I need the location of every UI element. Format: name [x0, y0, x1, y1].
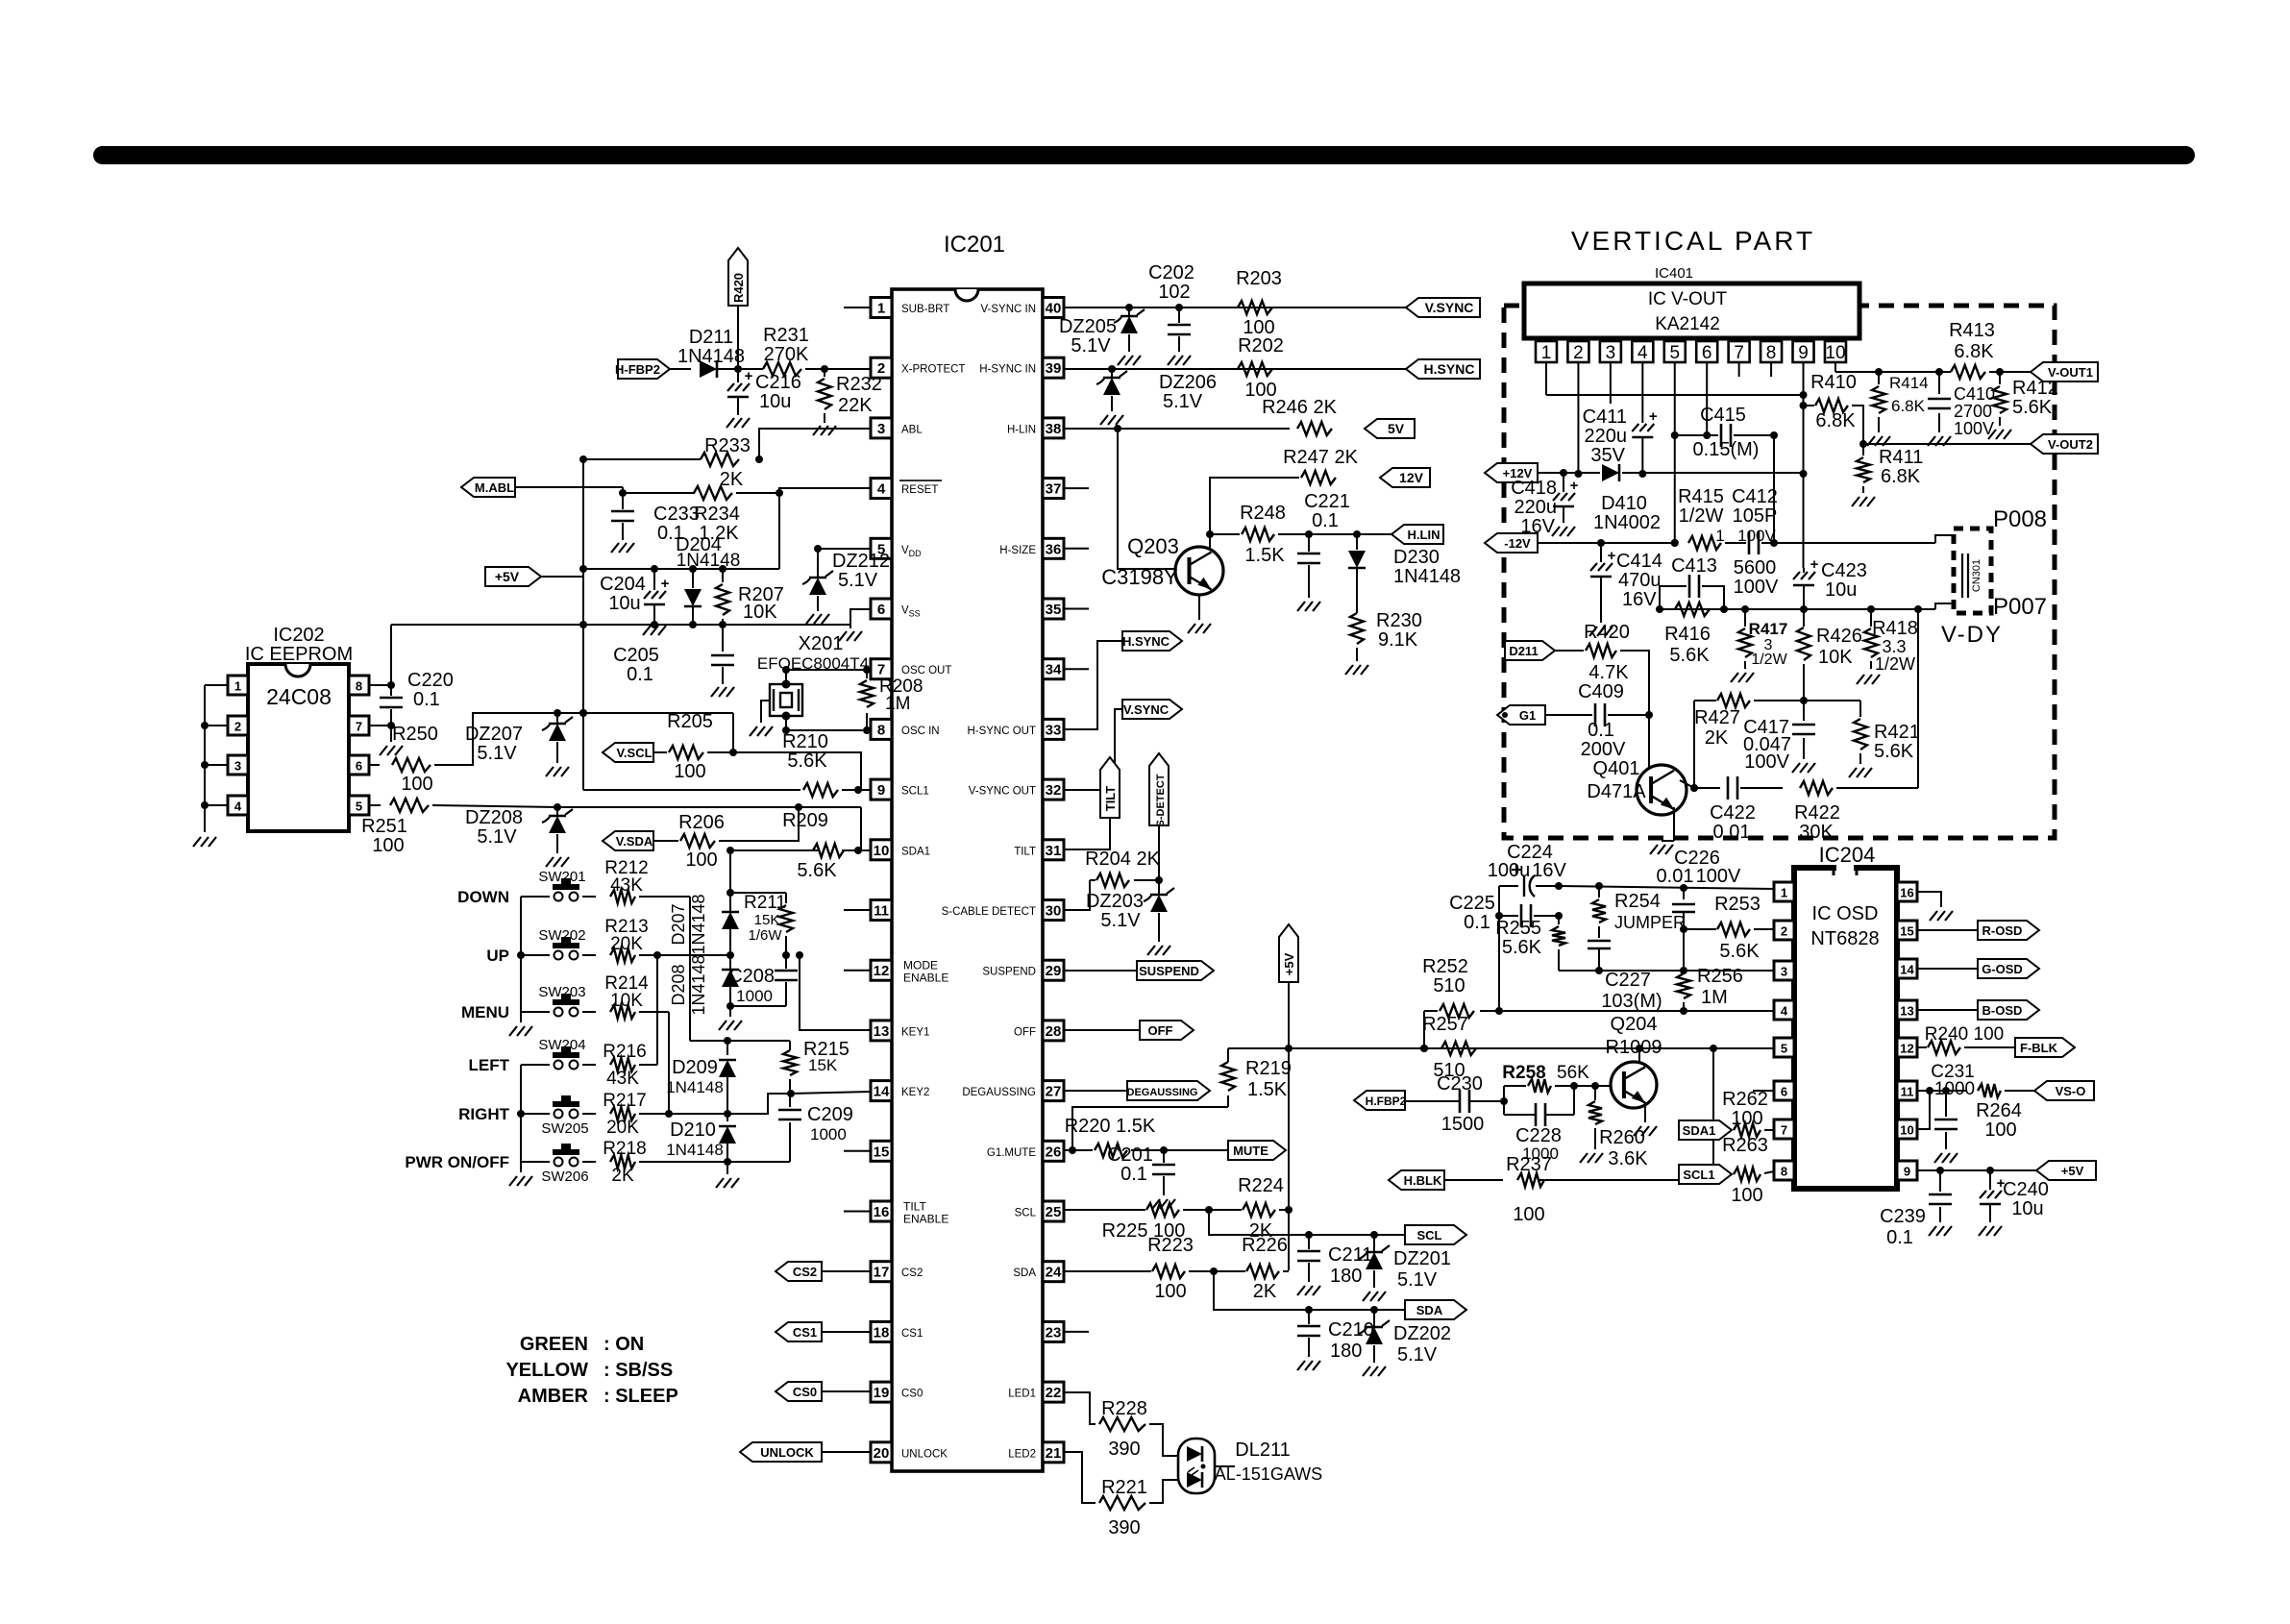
- svg-text:1.5K: 1.5K: [1247, 1079, 1288, 1100]
- svg-text:R248: R248: [1240, 503, 1286, 524]
- svg-text:24C08: 24C08: [266, 684, 332, 709]
- wire: [1773, 435, 1775, 543]
- ground: [1731, 673, 1738, 682]
- svg-text:H-SYNC IN: H-SYNC IN: [979, 364, 1036, 376]
- wire rail: [583, 568, 779, 570]
- resistor R256: [1683, 929, 1685, 971]
- svg-text:10K: 10K: [610, 991, 643, 1011]
- svg-text:100: 100: [685, 849, 717, 871]
- flag 5V: [1365, 419, 1415, 438]
- diode D209: [726, 1041, 728, 1055]
- ground: [1849, 768, 1857, 777]
- wire pin39: [1064, 368, 1406, 370]
- svg-text:15: 15: [1900, 924, 1913, 939]
- resistor R202: [1238, 362, 1272, 376]
- ground: [546, 857, 554, 867]
- svg-text:26: 26: [1046, 1144, 1062, 1160]
- wire: [432, 805, 557, 807]
- wire sw bus1: [520, 897, 522, 1012]
- resistor R420: [1586, 644, 1616, 657]
- svg-text:R202: R202: [1238, 335, 1284, 357]
- wire: [1283, 1270, 1289, 1272]
- flag +5V: [485, 567, 541, 586]
- svg-text:20K: 20K: [610, 934, 643, 954]
- svg-text:5.6K: 5.6K: [1502, 937, 1542, 958]
- svg-text:H.FBP2: H.FBP2: [1366, 1095, 1407, 1108]
- wire stub: [1064, 608, 1089, 610]
- svg-text:R415: R415: [1678, 486, 1724, 507]
- svg-text:1: 1: [1541, 343, 1552, 363]
- svg-text:DZ212: DZ212: [832, 551, 890, 572]
- IC201 pin 4: [871, 479, 892, 499]
- svg-text:100: 100: [1984, 1120, 2016, 1141]
- wire: [1770, 362, 1772, 377]
- ground: [1100, 415, 1108, 425]
- svg-text:IC204: IC204: [1819, 843, 1876, 867]
- wire: [1834, 362, 1836, 372]
- svg-text:IC401: IC401: [1655, 265, 1693, 282]
- diode D230: [1356, 534, 1358, 550]
- svg-text:100: 100: [1731, 1185, 1762, 1206]
- svg-text:DZ207: DZ207: [465, 724, 523, 745]
- IC201 pin 10: [871, 840, 892, 860]
- svg-text:3: 3: [234, 759, 241, 774]
- svg-text:25: 25: [1046, 1204, 1062, 1220]
- switch SW205: [521, 1113, 550, 1115]
- svg-text:32: 32: [1046, 782, 1062, 799]
- svg-text:CS0: CS0: [901, 1389, 923, 1400]
- wire pin6: [369, 764, 380, 766]
- ground: [839, 631, 847, 641]
- svg-text:1/6W: 1/6W: [748, 927, 782, 944]
- svg-text:3.3: 3.3: [1882, 637, 1906, 656]
- ground: [611, 543, 619, 553]
- IC201 pin 23: [1043, 1321, 1064, 1341]
- resistor R414: [1878, 372, 1880, 384]
- ground: [806, 614, 814, 624]
- svg-text:R223: R223: [1147, 1235, 1194, 1256]
- resistor R213: [610, 948, 635, 962]
- resistor R262: [1734, 1123, 1761, 1137]
- svg-text:D471A: D471A: [1587, 781, 1646, 802]
- svg-text:1000: 1000: [1934, 1079, 1975, 1099]
- svg-text:V-SYNC IN: V-SYNC IN: [980, 304, 1036, 315]
- switch SW203: [521, 1011, 550, 1013]
- svg-text:21: 21: [1046, 1445, 1062, 1462]
- resistor R246: [1297, 422, 1332, 435]
- svg-text:-12V: -12V: [1504, 536, 1531, 551]
- wire: [583, 458, 701, 460]
- svg-text:C423: C423: [1821, 560, 1867, 581]
- wire: [1989, 371, 2031, 373]
- ground: [1168, 356, 1175, 365]
- svg-text:1N4002: 1N4002: [1593, 512, 1661, 533]
- svg-text:DZ201: DZ201: [1393, 1248, 1451, 1269]
- resistor R228: [1099, 1417, 1145, 1431]
- svg-text:OFF: OFF: [1148, 1023, 1173, 1038]
- svg-text:R204 2K: R204 2K: [1085, 849, 1160, 870]
- svg-text:10: 10: [1825, 343, 1845, 363]
- svg-text:5.6K: 5.6K: [787, 750, 827, 772]
- svg-text:35V: 35V: [1590, 445, 1625, 466]
- ground: [509, 1176, 517, 1186]
- capacitor C414: [1600, 543, 1602, 562]
- svg-text:R421: R421: [1874, 722, 1920, 743]
- wire: [670, 368, 691, 370]
- wire: [1423, 1011, 1425, 1048]
- wire: [761, 701, 770, 723]
- svg-text:SW202: SW202: [538, 927, 585, 944]
- flag TILT: [1100, 757, 1120, 818]
- wire pin21 LED2: [1064, 1452, 1096, 1503]
- wire V-OUT2: [1863, 443, 2031, 445]
- svg-text:IC V-OUT: IC V-OUT: [1648, 289, 1728, 309]
- svg-text:CS2: CS2: [901, 1267, 923, 1279]
- IC201 pin 19: [871, 1382, 892, 1402]
- IC202 pin 8: [349, 676, 369, 695]
- svg-text:1000: 1000: [810, 1125, 847, 1144]
- diode D211: [700, 360, 717, 378]
- wire pin8: [369, 684, 391, 686]
- capacitor C209: [789, 1094, 791, 1107]
- svg-text:R211: R211: [744, 893, 786, 913]
- svg-text:R220 1.5K: R220 1.5K: [1065, 1116, 1156, 1137]
- svg-text:C422: C422: [1710, 802, 1756, 824]
- svg-text:28: 28: [1046, 1023, 1062, 1040]
- svg-text:R233: R233: [704, 435, 751, 456]
- svg-text:R221: R221: [1101, 1477, 1147, 1498]
- svg-text:0.1: 0.1: [627, 664, 653, 685]
- resistor R240: [1928, 1041, 1960, 1054]
- flag H.BLK: [1389, 1170, 1444, 1190]
- switch SW204: [521, 1064, 550, 1066]
- svg-text:S-DETECT: S-DETECT: [1155, 774, 1167, 826]
- wire pin40: [1064, 307, 1406, 308]
- capacitor C216: [737, 369, 739, 382]
- resistor R247: [1301, 471, 1336, 484]
- IC201 pin 3: [871, 418, 892, 438]
- vertical part dashed box: [1504, 306, 2055, 838]
- svg-text:SUSPEND: SUSPEND: [982, 967, 1036, 978]
- svg-text:V-DY: V-DY: [1941, 622, 2003, 648]
- resistor R205: [669, 746, 703, 759]
- svg-text:C225: C225: [1449, 893, 1495, 914]
- svg-text:1500: 1500: [1441, 1114, 1485, 1135]
- IC201 pin 30: [1043, 900, 1064, 921]
- wire: [1764, 1129, 1774, 1131]
- svg-text:IC EEPROM: IC EEPROM: [245, 644, 353, 665]
- wire: [717, 368, 763, 370]
- ground: [750, 726, 757, 736]
- svg-text:103(M): 103(M): [1601, 991, 1662, 1012]
- zener DZ207: [556, 713, 558, 723]
- diode D410: [1602, 464, 1619, 481]
- svg-text:P008: P008: [1993, 506, 2047, 532]
- IC201 pin 25: [1043, 1201, 1064, 1221]
- zener DZ212: [817, 549, 819, 577]
- svg-text:23: 23: [1046, 1324, 1062, 1341]
- wire: [1288, 982, 1290, 1048]
- svg-text:390: 390: [1108, 1439, 1140, 1460]
- resistor R219: [1227, 1095, 1229, 1107]
- svg-text:6: 6: [877, 602, 885, 618]
- svg-text:C413: C413: [1671, 555, 1717, 577]
- svg-text:D207: D207: [669, 903, 688, 945]
- svg-text:R206: R206: [678, 812, 725, 833]
- wire stub: [1064, 487, 1089, 489]
- svg-text:8: 8: [1781, 1165, 1787, 1179]
- IC201 pin 39: [1043, 357, 1064, 378]
- svg-text:5V: 5V: [1388, 421, 1405, 436]
- svg-text:C210: C210: [1328, 1319, 1374, 1341]
- wire: [623, 492, 695, 494]
- svg-text:30K: 30K: [1799, 822, 1834, 843]
- svg-text:R247 2K: R247 2K: [1283, 447, 1358, 468]
- IC204 pin 13: [1897, 1000, 1917, 1020]
- svg-text:390: 390: [1108, 1517, 1140, 1538]
- svg-text:D410: D410: [1601, 493, 1647, 514]
- ground: [1297, 602, 1305, 611]
- flag CS2: [776, 1262, 822, 1281]
- flag SDA: [1405, 1300, 1466, 1319]
- svg-text:0.1: 0.1: [1464, 912, 1490, 933]
- svg-text:R255: R255: [1495, 918, 1541, 939]
- resistor R263: [1734, 1168, 1761, 1181]
- svg-text:6: 6: [1702, 343, 1712, 363]
- ground: [1857, 675, 1864, 684]
- IC204 pin 2: [1774, 921, 1794, 940]
- flag UNLOCK: [740, 1442, 822, 1462]
- svg-text:R217: R217: [603, 1091, 646, 1111]
- svg-text:510: 510: [1433, 975, 1465, 997]
- wire pin4: [779, 488, 871, 569]
- svg-text:2K: 2K: [611, 1166, 634, 1186]
- capacitor C423: [1803, 568, 1805, 573]
- svg-text:DZ208: DZ208: [465, 807, 523, 828]
- svg-text:1N4148: 1N4148: [666, 1141, 724, 1159]
- wire: [1183, 1209, 1242, 1211]
- svg-text:3.6K: 3.6K: [1608, 1148, 1648, 1169]
- svg-text:C227: C227: [1605, 970, 1651, 991]
- svg-text:R256: R256: [1697, 966, 1743, 987]
- svg-text:IC201: IC201: [944, 232, 1005, 258]
- svg-text:C240: C240: [2003, 1179, 2049, 1200]
- svg-text:SCL: SCL: [1417, 1228, 1442, 1243]
- svg-text:5.1V: 5.1V: [477, 826, 517, 848]
- svg-text:R262: R262: [1722, 1089, 1768, 1110]
- svg-text:C209: C209: [807, 1104, 853, 1125]
- capacitor C220: [390, 685, 392, 696]
- svg-text:SCL1: SCL1: [1683, 1168, 1714, 1182]
- wire pin29: [1064, 970, 1137, 972]
- svg-text:AL-151GAWS: AL-151GAWS: [1215, 1464, 1322, 1484]
- svg-text:1/2W: 1/2W: [1679, 505, 1724, 527]
- capacitor C233: [622, 493, 624, 509]
- top title bar: [93, 146, 2195, 164]
- svg-text:10u: 10u: [759, 391, 791, 412]
- IC201 pin 33: [1043, 719, 1064, 739]
- IC201 pin 8: [871, 719, 892, 739]
- IC201 pin 5: [871, 538, 892, 558]
- svg-text:V-OUT2: V-OUT2: [2048, 437, 2093, 452]
- IC201 pin 22: [1043, 1382, 1064, 1402]
- wire: [656, 955, 658, 1065]
- svg-text:C412: C412: [1732, 486, 1778, 507]
- svg-text:S-CABLE DETECT: S-CABLE DETECT: [942, 906, 1036, 918]
- svg-text:R203: R203: [1236, 268, 1282, 289]
- flag SUSPEND: [1137, 961, 1214, 980]
- svg-text:5: 5: [1781, 1042, 1787, 1056]
- svg-text:D211: D211: [1509, 644, 1538, 658]
- svg-text:V.SDA: V.SDA: [616, 834, 653, 849]
- svg-text:V-SYNC OUT: V-SYNC OUT: [969, 786, 1036, 798]
- wire: [727, 1161, 790, 1163]
- capacitor C422: [1727, 776, 1730, 800]
- flag F-BLK: [2015, 1038, 2075, 1057]
- wire pin9: [1917, 1169, 2036, 1171]
- capacitor C204: [653, 569, 655, 590]
- transistor Q401: [1637, 765, 1687, 815]
- wire: [390, 625, 392, 685]
- capacitor C208: [785, 955, 787, 969]
- wire: [1214, 1271, 1405, 1310]
- svg-text:4: 4: [877, 481, 886, 498]
- svg-text:0.01: 0.01: [1657, 866, 1694, 887]
- ground: [1188, 624, 1195, 633]
- IC401 pin 8: [1761, 341, 1782, 362]
- zener DZ201: [1373, 1235, 1375, 1251]
- IC201 body: [892, 289, 1043, 1471]
- svg-text:100V: 100V: [1744, 751, 1789, 773]
- wire rail: [1546, 394, 1804, 396]
- flag V.SDA: [603, 831, 653, 850]
- resistor R412: [1999, 372, 2001, 384]
- IC201 pin 38: [1043, 418, 1064, 438]
- svg-text:R414: R414: [1889, 374, 1929, 392]
- svg-text:43K: 43K: [606, 1069, 639, 1089]
- svg-text:10u: 10u: [2011, 1198, 2043, 1219]
- resistor R255: [1558, 916, 1560, 924]
- capacitor C411: [1632, 424, 1654, 431]
- IC202 pin 2: [228, 716, 248, 735]
- svg-text:1M: 1M: [1701, 987, 1728, 1008]
- wire pin30: [1064, 880, 1090, 910]
- svg-text:YELLOW: YELLOW: [505, 1360, 588, 1381]
- resistor R234: [694, 486, 732, 500]
- flag V.SYNC out: [1122, 700, 1182, 719]
- wire: [639, 1011, 669, 1013]
- svg-text:LEFT: LEFT: [469, 1056, 510, 1074]
- svg-text:UP: UP: [486, 947, 509, 965]
- svg-text:2K: 2K: [720, 469, 744, 490]
- svg-text:D211: D211: [689, 327, 733, 348]
- resistor R220: [1072, 1149, 1093, 1151]
- connector CN301 P008/P007: [1954, 529, 1991, 613]
- svg-text:X201: X201: [799, 633, 844, 654]
- svg-text:100: 100: [1154, 1281, 1186, 1302]
- IC204 pin 5: [1774, 1038, 1794, 1057]
- svg-text:12V: 12V: [1399, 470, 1424, 485]
- resistor R207: [722, 569, 724, 582]
- svg-text:1: 1: [234, 679, 241, 694]
- svg-text:G1.MUTE: G1.MUTE: [987, 1147, 1036, 1159]
- svg-text:C411: C411: [1583, 406, 1627, 428]
- svg-text:R219: R219: [1245, 1058, 1292, 1079]
- svg-text:PWR ON/OFF: PWR ON/OFF: [405, 1153, 509, 1171]
- wire pin33: [1064, 641, 1122, 729]
- zener DZ203: [1158, 880, 1160, 894]
- svg-text:KEY2: KEY2: [901, 1087, 929, 1098]
- IC401 pin 2: [1567, 341, 1588, 362]
- svg-text:R257: R257: [1422, 1014, 1468, 1035]
- svg-text:29: 29: [1046, 963, 1062, 979]
- svg-text:Q203: Q203: [1127, 534, 1179, 558]
- svg-text:100V: 100V: [1737, 527, 1776, 545]
- ground: [1867, 436, 1875, 446]
- wire: [1149, 1424, 1183, 1456]
- resistor R257: [1441, 1042, 1476, 1055]
- svg-text:C230: C230: [1437, 1073, 1483, 1095]
- svg-text:5.6K: 5.6K: [1669, 645, 1710, 666]
- svg-text:DZ206: DZ206: [1159, 372, 1217, 393]
- svg-text:AMBER: AMBER: [518, 1386, 589, 1407]
- svg-text:16V: 16V: [1622, 589, 1657, 610]
- IC201 pin 14: [871, 1081, 892, 1101]
- svg-text:1N4148: 1N4148: [689, 954, 708, 1015]
- svg-text:M.ABL: M.ABL: [475, 480, 514, 495]
- wire pin15: [1917, 929, 1978, 931]
- wire: [1712, 1048, 1714, 1180]
- wire: [736, 492, 779, 494]
- svg-text:ABL: ABL: [901, 424, 923, 435]
- svg-text:DZ202: DZ202: [1393, 1323, 1451, 1344]
- wire pin26: [1064, 1149, 1072, 1151]
- IC201 pin 24: [1043, 1262, 1064, 1282]
- svg-text:C410: C410: [1954, 384, 1995, 404]
- wire: [1189, 1270, 1245, 1272]
- svg-text:1N4148: 1N4148: [666, 1078, 724, 1096]
- wire pin7: [369, 725, 391, 726]
- ground: [1634, 1126, 1641, 1136]
- svg-text:6.8K: 6.8K: [1891, 397, 1926, 415]
- resistor R426: [1803, 611, 1805, 627]
- svg-text:: ON: : ON: [603, 1334, 644, 1355]
- ground: [380, 746, 387, 755]
- capacitor C417: [1803, 701, 1805, 721]
- svg-text:H-SYNC OUT: H-SYNC OUT: [967, 726, 1036, 737]
- resistor R225: [1146, 1203, 1179, 1217]
- svg-text:R264: R264: [1976, 1100, 2022, 1121]
- ground: [643, 626, 651, 635]
- IC201 pin 35: [1043, 599, 1064, 619]
- diode D207: [729, 893, 731, 911]
- svg-text:V.SCL: V.SCL: [616, 746, 652, 760]
- svg-text:10: 10: [1900, 1123, 1913, 1138]
- capacitor C230: [1459, 1090, 1462, 1113]
- wire: [1738, 362, 1740, 377]
- svg-text:5.6K: 5.6K: [1874, 741, 1914, 762]
- IC201 pin 29: [1043, 960, 1064, 980]
- wire: [1917, 611, 1919, 788]
- resistor R416: [1675, 603, 1710, 616]
- ground: [1792, 763, 1800, 773]
- flag R420 (to R420): [728, 248, 748, 306]
- ground: [1929, 1226, 1936, 1236]
- wire Q203 emitter: [1198, 595, 1200, 620]
- svg-text:12: 12: [874, 963, 890, 979]
- resistor R230: [1350, 613, 1364, 644]
- svg-text:SUB-BRT: SUB-BRT: [901, 304, 949, 315]
